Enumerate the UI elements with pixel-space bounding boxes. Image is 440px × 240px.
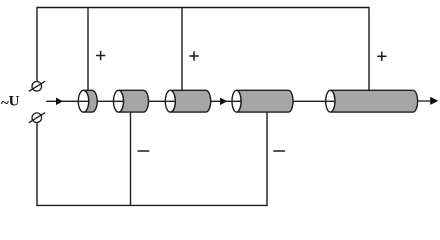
wire: top bus from AC source to drift tubes 1,3,5 <box>37 8 369 91</box>
wire: beam axis segment between drift tubes 3 and 4 <box>211 100 241 102</box>
polarity label + at drift tube 1 <box>96 51 105 60</box>
svg-text:U: U <box>9 94 20 110</box>
AC source terminal (lower) <box>29 113 45 123</box>
beam arrow between drift tubes 3 and 4 <box>220 98 227 106</box>
label: AC voltage ~U <box>1 94 20 112</box>
wire: beam axis exit segment after drift tube 5 <box>417 100 431 102</box>
polarity label - at drift tube 4 <box>273 150 285 152</box>
polarity label + at drift tube 3 <box>189 51 198 60</box>
wire: vertical drop from top bus to drift tube 1 <box>87 8 89 91</box>
beam arrow at injection <box>56 98 63 106</box>
wire: beam axis segment into drift tube 1 <box>46 100 88 102</box>
wire: vertical drop from top bus to drift tube 3 <box>181 8 183 91</box>
wire: beam axis segment between drift tubes 2 and 3 <box>148 100 175 102</box>
wire: beam axis segment between drift tubes 1 and 2 <box>97 100 124 102</box>
drift tube 4 <box>232 90 293 112</box>
wire: beam axis segment between drift tubes 4 and 5 <box>293 100 335 102</box>
drift tube 5 <box>326 90 418 112</box>
AC source terminal (upper) <box>29 81 45 91</box>
drift tube 1 <box>78 90 97 112</box>
drift tube 3 <box>165 90 210 112</box>
polarity label + at drift tube 5 <box>377 52 386 61</box>
drift tube 2 <box>114 90 149 112</box>
wire: vertical riser from drift tube 2 to bottom bus <box>130 112 132 205</box>
beam arrow at exit <box>430 97 438 105</box>
polarity label - at drift tube 2 <box>138 150 150 152</box>
wire: bottom bus from AC source to drift tubes 2,4 <box>37 112 267 205</box>
